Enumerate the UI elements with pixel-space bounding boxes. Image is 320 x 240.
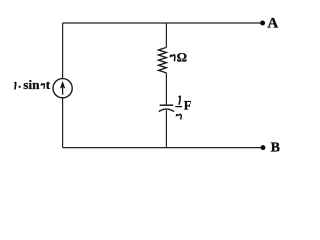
svg-text:sin: sin — [23, 77, 40, 92]
svg-text:B: B — [271, 141, 280, 156]
svg-text:Ω: Ω — [177, 50, 187, 64]
svg-text:A: A — [267, 16, 278, 32]
svg-text:F: F — [184, 98, 192, 112]
svg-text:t: t — [46, 77, 51, 92]
